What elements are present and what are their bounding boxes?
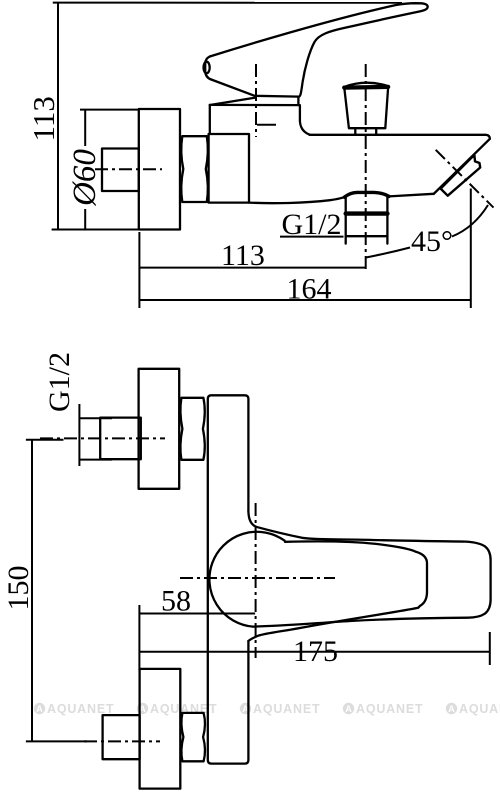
svg-text:58: 58	[161, 585, 191, 618]
svg-text:G1/2: G1/2	[43, 352, 76, 412]
svg-text:AQUANET: AQUANET	[459, 702, 500, 716]
svg-text:AQUANET: AQUANET	[47, 702, 114, 716]
svg-text:AQUANET: AQUANET	[356, 702, 423, 716]
svg-text:G1/2: G1/2	[282, 208, 342, 241]
svg-text:113: 113	[26, 96, 61, 141]
svg-text:A: A	[345, 704, 352, 714]
svg-text:A: A	[448, 704, 455, 714]
svg-text:150: 150	[2, 566, 35, 611]
svg-text:Ø60: Ø60	[67, 149, 103, 207]
svg-text:175: 175	[293, 635, 338, 668]
svg-text:45°: 45°	[411, 225, 453, 258]
svg-text:AQUANET: AQUANET	[253, 702, 320, 716]
svg-text:164: 164	[287, 273, 332, 306]
svg-text:A: A	[36, 704, 43, 714]
svg-text:113: 113	[221, 239, 265, 272]
